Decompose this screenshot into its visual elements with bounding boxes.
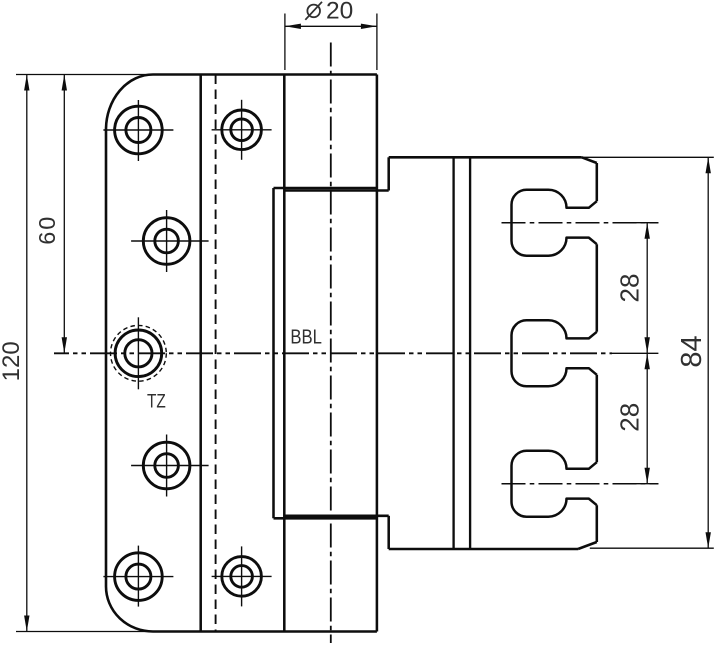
hole TZ outer circle (115, 330, 162, 377)
knuckle right edge (376, 75, 379, 632)
right edge segment 4 (596, 505, 599, 542)
hole D crosshair (131, 465, 209, 467)
dim 120 top extension line (16, 74, 150, 76)
hole TZ inner circle (125, 340, 152, 367)
cutout 1 centerline (502, 222, 659, 224)
hole A crosshair (103, 129, 173, 131)
right edge segment 2 (596, 244, 599, 332)
right leaf bottom right chamfer (578, 542, 597, 549)
hole C crosshair (131, 240, 209, 242)
right leaf left edge lower segment (387, 516, 390, 549)
middle knuckle bottom edge (284, 515, 388, 518)
right edge segment 3 (596, 375, 599, 462)
dim 28 arrow bottom (645, 468, 650, 484)
hole B crosshair (212, 129, 272, 131)
right leaf top edge (389, 156, 582, 159)
dim d20 diameter symbol (307, 5, 320, 18)
sleeve outer left edge (272, 188, 275, 518)
dim d20 extension line right (376, 14, 378, 71)
dim 84 line (707, 157, 709, 548)
right leaf bend line 1 (452, 157, 454, 549)
dim 120 line (26, 75, 28, 632)
dim 84 extension bottom (590, 547, 714, 549)
hole F inner circle (231, 566, 253, 588)
sleeve bottom edge (274, 517, 377, 520)
right leaf bend line 2 (469, 157, 471, 549)
dim d20 arrow left (285, 24, 301, 29)
dim d20 arrow right (361, 24, 377, 29)
svg-text:TZ: TZ (147, 392, 166, 413)
right leaf top right chamfer (582, 157, 597, 163)
knuckle left edge (283, 75, 286, 632)
svg-text:84: 84 (676, 335, 708, 367)
dim 120 arrow top (24, 75, 29, 91)
hole A inner circle (126, 118, 151, 143)
hole B outer circle (222, 110, 262, 150)
hole C inner circle (155, 229, 179, 253)
hole F crosshair (212, 575, 272, 577)
plate inner vertical line (199, 75, 202, 632)
hole TZ dashed circle (110, 325, 166, 381)
dim 120 arrow bottom (24, 616, 29, 632)
dim 84 extension top (582, 156, 714, 158)
hole E crosshair (103, 576, 173, 578)
dim 28 line (646, 223, 648, 484)
svg-text:120: 120 (0, 341, 25, 381)
hole TZ vertical crosshair (137, 317, 139, 389)
left plate outline (106, 75, 377, 632)
cutout slot 1 (512, 190, 597, 256)
main horizontal centerline (54, 352, 612, 354)
right edge segment 1 (596, 163, 599, 201)
hole C outer circle (143, 218, 190, 265)
hole A outer circle (115, 106, 163, 154)
svg-text:20: 20 (326, 0, 353, 25)
dim 84 arrow top (706, 157, 711, 173)
hole D inner circle (155, 454, 179, 478)
hole D outer circle (143, 442, 190, 489)
right leaf bottom edge (389, 548, 578, 551)
barrel vertical centerline (330, 43, 332, 644)
dim 84 arrow bottom (706, 532, 711, 548)
svg-text:60: 60 (34, 215, 60, 245)
plate hidden dashed line (215, 75, 217, 632)
main centerline thin extension to 28-dim (612, 352, 658, 354)
right leaf left edge upper segment (387, 157, 390, 190)
dim 120 bottom extension line (16, 631, 150, 633)
dim 28 extension tick bottom (634, 483, 659, 485)
cutout 3 centerline (502, 483, 659, 485)
dim 60 line (63, 75, 65, 354)
svg-text:BBL: BBL (290, 326, 322, 348)
dim 28 extension tick top (634, 222, 659, 224)
cutout slot 2 (512, 320, 597, 386)
dim 60 arrow bottom (62, 337, 67, 353)
hole E inner circle (126, 564, 151, 589)
dim 60 arrow top (62, 75, 67, 91)
cutout slot 3 (512, 451, 597, 517)
svg-text:28: 28 (615, 274, 645, 303)
dim d20 extension line left (284, 14, 286, 71)
middle knuckle top edge (284, 189, 388, 192)
svg-text:28: 28 (615, 403, 645, 432)
dim 28 arrows middle (645, 337, 650, 353)
dim 28 arrow top (645, 223, 650, 239)
hole B inner circle (231, 119, 253, 141)
dim d20 line (285, 25, 377, 27)
hole E outer circle (115, 553, 163, 601)
sleeve top edge (274, 187, 377, 190)
hole F outer circle (222, 557, 262, 597)
